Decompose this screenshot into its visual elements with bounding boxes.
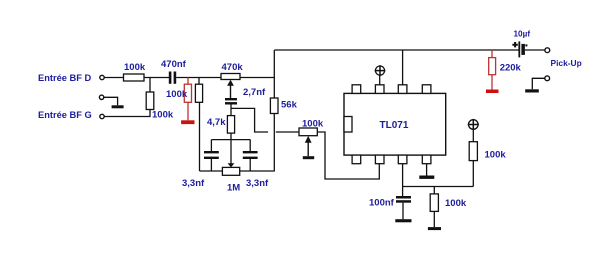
capacitor C3 3,3nf (left): [204, 151, 219, 153]
svg-text:100k: 100k: [445, 198, 467, 209]
wire V+ stem to pin top 2: [379, 75, 381, 85]
resistor R8 100k body: [469, 142, 477, 161]
resistor R1 100k (series input D): [124, 74, 145, 81]
node middle terminal: [99, 95, 103, 99]
wire inner rail (cap tops): [211, 139, 250, 141]
svg-text:100k: 100k: [166, 89, 188, 100]
wire R4 top stem: [198, 78, 200, 85]
wiper arrow of P3 (up) with ground: [305, 136, 312, 143]
svg-text:100k: 100k: [124, 62, 146, 73]
wire right 3.3nf top stem: [249, 140, 251, 151]
ground of pin 4: [419, 176, 434, 179]
resistor R9 220k (red) body: [489, 58, 496, 75]
wire C6 to Pick-Up terminal: [525, 49, 545, 51]
wire stepped link (2.7nf node to P3): [231, 108, 299, 132]
capacitor C6 minus tick: [525, 44, 527, 46]
resistor R2 100k (D to G): [146, 92, 154, 110]
wire vertical from top rail to 56k: [273, 50, 275, 98]
power V- symbol circle-plus: [469, 120, 479, 130]
svg-text:10µf: 10µf: [514, 30, 531, 39]
wire V- stem to R8: [472, 129, 474, 141]
resistor R4 (to bottom rail): [195, 84, 202, 102]
node Entrée BF G terminal: [100, 114, 104, 118]
node Pick-Up terminal: [545, 48, 550, 53]
svg-text:Pick-Up: Pick-Up: [551, 58, 582, 68]
capacitor C6 right plate: [521, 44, 525, 55]
svg-text:470nf: 470nf: [161, 59, 187, 70]
pin top 4: [422, 85, 431, 94]
wire right 3.3nf bottom stem: [249, 159, 251, 171]
wire D input to R1: [105, 77, 125, 79]
wire C2 to R5: [230, 105, 232, 116]
wire P1 right to node: [240, 77, 274, 79]
svg-text:470k: 470k: [222, 62, 244, 73]
pin top 3: [398, 85, 407, 94]
resistor R5 4,7k: [227, 116, 234, 134]
wire mid rail: [403, 186, 474, 188]
wire 220k top stem (red): [491, 50, 493, 58]
svg-text:Entrée BF D: Entrée BF D: [38, 73, 91, 83]
wire R2 bottom stem: [149, 110, 151, 117]
capacitor C2 2.7nf: [225, 98, 237, 100]
wire R5 down through inner rail to wiper arrow: [230, 133, 232, 164]
wire C1 to P1 (through nodes): [176, 77, 221, 79]
wire 100nf to ground: [402, 203, 404, 220]
pin bottom 3: [398, 155, 407, 164]
wire 220k bottom stem (red): [491, 75, 493, 90]
wire R7 bottom stem: [433, 211, 435, 227]
wire R3 top stem (red): [187, 78, 189, 85]
svg-text:1M: 1M: [227, 183, 240, 194]
wire pin top 3 to top rail: [402, 50, 404, 85]
wiper arrow of P2 1M (down): [228, 163, 235, 167]
pin bottom 4: [422, 155, 431, 164]
resistor R6 56k: [270, 98, 278, 114]
wire pin bottom 3 down to 100nf: [402, 164, 404, 196]
wire G input line: [105, 116, 151, 118]
wire R8 down to mid rail: [472, 161, 474, 187]
capacitor C6 10µf polarized plus sign: [512, 42, 517, 47]
svg-text:220k: 220k: [500, 63, 522, 74]
svg-text:3,3nf: 3,3nf: [246, 178, 269, 189]
ground of P3 wiper: [303, 156, 314, 159]
svg-text:TL071: TL071: [380, 120, 409, 131]
svg-text:56k: 56k: [281, 100, 298, 111]
wire left 3.3nf bottom stem: [210, 159, 212, 171]
capacitor C5 100nf: [396, 196, 411, 199]
svg-text:100nf: 100nf: [369, 198, 395, 209]
wire R1 to C1: [144, 77, 169, 79]
wire bottom rail: [200, 170, 274, 172]
svg-text:100k: 100k: [302, 119, 324, 130]
wire top rail: [274, 49, 519, 51]
ground (input shield): [112, 105, 124, 108]
wire left 3.3nf top stem: [210, 140, 212, 151]
wire middle terminal to ground: [104, 97, 118, 105]
svg-text:2,7nf: 2,7nf: [243, 87, 266, 98]
wire Pick-Up ground terminal to ground: [532, 78, 544, 89]
resistor R7 100k body: [430, 194, 438, 212]
wire R4 down to bottom rail: [199, 102, 201, 171]
wiper arrow of P1: [227, 80, 234, 86]
ground of 100nf: [395, 219, 411, 222]
ground (red) of R3: [181, 120, 194, 124]
ground of Pick-Up: [525, 89, 539, 92]
potentiometer P2 1M body: [222, 167, 239, 175]
svg-text:3,3nf: 3,3nf: [182, 178, 205, 189]
wire R3 bottom stem (red): [187, 102, 189, 120]
pin top 1: [352, 85, 361, 94]
ground (red) of R9: [486, 90, 499, 94]
svg-text:Entrée BF G: Entrée BF G: [38, 110, 92, 120]
pin bottom 2: [375, 155, 384, 164]
capacitor C1 470nf (series): [169, 72, 172, 84]
capacitor C4 3,3nf (right): [243, 151, 258, 153]
pin top 2: [375, 85, 384, 94]
svg-text:100k: 100k: [152, 110, 174, 121]
op-amp U1 TL071 body: [344, 93, 446, 155]
potentiometer P1 470k body: [221, 74, 240, 80]
pin bottom 1: [352, 155, 361, 164]
capacitor C6 left plate: [518, 41, 520, 57]
potentiometer P3 100k body: [299, 128, 317, 136]
ground of R7: [428, 227, 441, 230]
node Entrée BF D terminal: [100, 75, 104, 79]
resistor R7 100k (to ground) stem: [433, 187, 435, 194]
wire P3 right to IC pin2 bottom: [317, 132, 379, 179]
pin left (inner): [344, 117, 352, 133]
svg-text:4,7k: 4,7k: [207, 117, 226, 128]
wire 56k down to bottom rail: [273, 114, 275, 172]
resistor R3 100k (red, to ground): [184, 84, 191, 102]
power V+ symbol circle-plus: [375, 66, 384, 75]
node Pick-Up ground terminal: [545, 76, 550, 81]
svg-text:100k: 100k: [485, 150, 507, 161]
wire R2 top stem: [149, 78, 151, 93]
wire pin bottom 4 to ground: [426, 164, 428, 176]
